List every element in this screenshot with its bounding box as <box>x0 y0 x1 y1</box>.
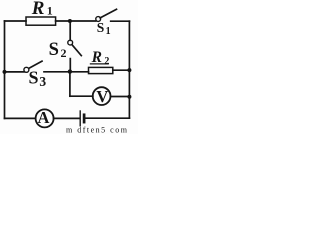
svg-text:2: 2 <box>104 56 109 67</box>
resistor R1 <box>26 17 56 25</box>
svg-text:2: 2 <box>61 46 67 60</box>
wire S1 right terminal <box>111 20 130 22</box>
switch S3 blade <box>29 61 42 68</box>
wire R2 to right edge <box>113 69 130 71</box>
node right R2 junction <box>127 68 131 72</box>
svg-text:S: S <box>97 20 105 35</box>
battery short plate <box>83 115 86 122</box>
wire voltmeter to right edge <box>111 96 130 98</box>
wire S2 bottom terminal <box>69 59 71 72</box>
svg-text:R: R <box>31 0 45 19</box>
node middle junction <box>68 69 72 73</box>
svg-text:S: S <box>49 40 59 60</box>
switch S2 pivot <box>68 40 73 45</box>
switch S1 blade <box>100 9 116 18</box>
wire ammeter to battery <box>54 117 79 119</box>
svg-text:A: A <box>38 108 50 127</box>
svg-text:S: S <box>29 68 39 88</box>
wire voltmeter branch horizontal <box>70 95 93 97</box>
wire R1 to S1 <box>56 20 96 22</box>
svg-text:V: V <box>96 87 108 106</box>
ammeter A <box>36 109 54 127</box>
switch S1 pivot <box>96 17 101 22</box>
wire bottom-left to ammeter <box>5 117 36 119</box>
node left middle junction <box>3 70 7 74</box>
wire S3 to R2 <box>44 71 89 73</box>
label R2 underline <box>90 63 109 65</box>
wire right edge <box>128 21 130 118</box>
switch S3 pivot <box>24 67 29 72</box>
svg-text:m dften5 com: m dften5 com <box>66 126 128 135</box>
svg-text:3: 3 <box>39 74 46 89</box>
voltmeter V <box>93 87 111 105</box>
wire S2 top drop <box>69 21 71 40</box>
wire voltmeter branch vertical <box>69 72 71 97</box>
wire battery to bottom-right <box>86 117 130 119</box>
wire top-left to R1 <box>5 20 27 22</box>
svg-text:1: 1 <box>106 26 111 37</box>
resistor R2 <box>89 67 113 73</box>
wire left edge <box>4 21 6 118</box>
switch S2 blade <box>72 45 81 56</box>
node right voltmeter junction <box>127 95 131 99</box>
svg-text:1: 1 <box>47 4 53 18</box>
node top junction <box>68 19 72 23</box>
wire left edge to S3 <box>5 71 25 73</box>
battery long plate <box>79 111 81 126</box>
